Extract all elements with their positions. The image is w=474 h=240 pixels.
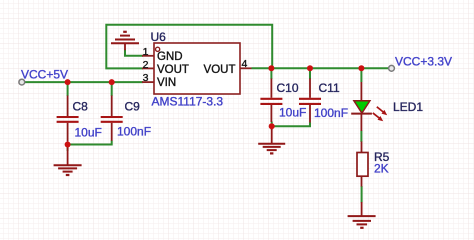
U6 pin 3 stub: [142, 72, 154, 84]
junction C9/input: [109, 79, 115, 85]
node VCC+5V label: [21, 68, 68, 82]
wire LED1 to R5: [360, 131, 362, 143]
junction LED1/output: [358, 65, 364, 71]
U6 pin 1 stub: [142, 46, 154, 58]
wire C10 top stub: [270, 68, 272, 79]
svg-text:LED1: LED1: [393, 100, 423, 114]
IC U6 AMS1117-3.3 regulator body: [154, 43, 240, 94]
svg-text:VCC+3.3V: VCC+3.3V: [395, 55, 452, 69]
ground below R5: [348, 202, 376, 228]
svg-text:10uF: 10uF: [279, 106, 306, 120]
capacitor C8: [57, 96, 79, 142]
C11 value 100nF: [314, 106, 348, 120]
LED1 designator: [393, 100, 423, 114]
svg-text:VIN: VIN: [157, 77, 176, 89]
U6 value label AMS1117-3.3: [152, 95, 224, 109]
junction C10 bottom/ground: [269, 123, 275, 129]
wire R5 to ground: [361, 186, 363, 203]
capacitor C9: [101, 96, 123, 141]
C9 value 100nF: [117, 124, 151, 138]
U6 pin 4 stub: [240, 58, 252, 70]
svg-text:C10: C10: [277, 81, 299, 95]
wire LED1 top stub: [360, 68, 362, 82]
svg-text:AMS1117-3.3: AMS1117-3.3: [152, 95, 224, 109]
LED1 emission arrows: [373, 107, 387, 122]
ground below C10: [258, 129, 285, 153]
C9 designator: [125, 99, 141, 113]
junction C8 bottom/ground: [65, 142, 71, 148]
junction C11/output: [307, 65, 313, 71]
junction loop/output: [268, 65, 274, 71]
node VCC+5V port: [19, 79, 25, 85]
svg-text:10uF: 10uF: [75, 125, 102, 139]
wire C11 top stub: [309, 68, 311, 79]
ground below C8: [54, 147, 82, 175]
ground (inverted) above U6: [111, 32, 139, 50]
svg-text:C9: C9: [125, 99, 141, 113]
capacitor C10: [260, 79, 282, 123]
U6 designator label: [151, 30, 167, 44]
svg-text:2: 2: [143, 59, 149, 71]
wire C10-C11 bottom link: [272, 122, 310, 130]
svg-text:C11: C11: [319, 81, 340, 95]
svg-text:3: 3: [143, 72, 149, 84]
C8 designator: [73, 99, 89, 113]
LED1 diode: [351, 82, 372, 131]
wire pin 2 VOUT loop to output net: [106, 25, 272, 69]
wire GND symbol to pin 1: [125, 50, 143, 56]
svg-text:100nF: 100nF: [117, 124, 151, 138]
svg-text:GND: GND: [157, 51, 183, 63]
C8 value 10uF: [75, 125, 102, 139]
C10 value 10uF: [279, 106, 306, 120]
C11 designator: [319, 81, 340, 95]
wire C9 top stub: [111, 82, 113, 96]
R5 value 2K: [374, 162, 389, 176]
node VCC+3.3V port: [389, 65, 395, 71]
capacitor C11: [299, 79, 321, 123]
wire C8 top stub: [67, 82, 69, 96]
svg-text:VOUT: VOUT: [204, 64, 236, 76]
svg-text:C8: C8: [73, 99, 89, 113]
C10 designator: [277, 81, 299, 95]
svg-text:U6: U6: [151, 30, 167, 44]
svg-text:1: 1: [143, 46, 149, 58]
R5 designator: [374, 150, 390, 164]
node VCC+3.3V label: [395, 55, 452, 69]
resistor R5: [357, 142, 368, 187]
wire C8-C9 bottom link: [68, 141, 112, 152]
svg-text:100nF: 100nF: [314, 106, 348, 120]
U6 pin 2 stub: [142, 59, 154, 71]
svg-text:4: 4: [242, 58, 248, 70]
svg-text:VOUT: VOUT: [157, 64, 189, 76]
svg-text:2K: 2K: [374, 162, 389, 176]
wire VCC+3.3V output net: [252, 67, 390, 69]
wire VCC+5V input net: [25, 81, 143, 83]
svg-text:VCC+5V: VCC+5V: [21, 68, 68, 82]
junction C8/input: [65, 79, 71, 85]
